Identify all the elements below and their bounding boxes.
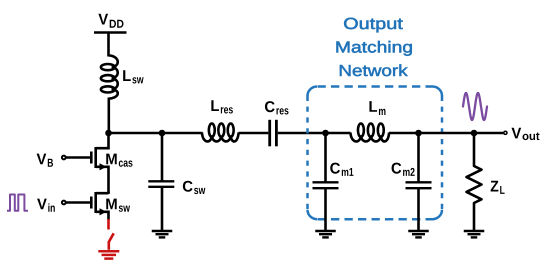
red ground (98, 251, 119, 258)
Csw label (183, 181, 205, 194)
Cm1 label (330, 163, 353, 176)
capacitor Cm2 (406, 182, 432, 188)
capacitor Cm1 (313, 182, 339, 188)
Vout label (511, 128, 539, 140)
node A (drain node) (105, 130, 112, 137)
ground under Csw (152, 231, 173, 237)
node C (Cm1 node) (322, 130, 329, 137)
wire node to Cm2 (417, 133, 420, 182)
Vin label (37, 199, 55, 212)
Msw label (106, 199, 130, 212)
capacitor Csw (148, 181, 174, 187)
wire ZL to ground (473, 206, 476, 231)
inductor Lm (351, 124, 390, 142)
ground under ZL (464, 231, 485, 237)
Lm label (369, 101, 385, 115)
wire VDD to Lsw (107, 33, 110, 57)
wire Lres to Cres (239, 132, 269, 135)
Cres label (265, 101, 289, 114)
wire Cm2 to ground (417, 188, 420, 231)
ground under Cm2 (408, 231, 429, 237)
wire Lm to Vout (389, 132, 503, 135)
dashed matching network box (308, 87, 443, 220)
node D (Cm2 node) (415, 130, 422, 137)
main horizontal wire (109, 132, 203, 135)
Vout terminal (504, 131, 507, 134)
wire node to Cm1 (324, 133, 327, 182)
Vin square wave glyph (7, 195, 28, 211)
wire node to ZL (473, 133, 476, 164)
VDD supply bar (94, 31, 127, 34)
Output Matching Network label line 2 (337, 41, 412, 56)
Output Matching Network label line 1 (344, 18, 402, 33)
node B (Csw node) (159, 130, 166, 137)
Cm2 label (392, 163, 415, 176)
red wire from Msw source (107, 219, 110, 230)
Lres label (211, 100, 233, 113)
red switch blade (109, 233, 114, 250)
ZL label (491, 181, 505, 194)
Vout sine glyph (463, 93, 487, 120)
Lsw label (123, 70, 143, 83)
Mcas label (106, 154, 132, 167)
resistor ZL (467, 164, 482, 206)
wire Cm1 to ground (324, 188, 327, 231)
wire Cres to Cm1 node (278, 132, 351, 135)
capacitor Cres (270, 120, 277, 147)
node E (ZL node) (471, 130, 478, 137)
wire Csw to ground (161, 187, 164, 231)
transistor U Mcas (62, 133, 109, 194)
inductor Lres (202, 124, 239, 142)
inductor Lsw (101, 56, 118, 99)
VDD label (98, 14, 123, 28)
VB label (37, 154, 53, 167)
transistor Q Msw (62, 192, 109, 220)
ground under Cm1 (315, 231, 336, 237)
wire Lsw to drain node (108, 98, 111, 134)
Output Matching Network label line 3 (340, 64, 408, 76)
wire node to Csw (161, 133, 164, 181)
